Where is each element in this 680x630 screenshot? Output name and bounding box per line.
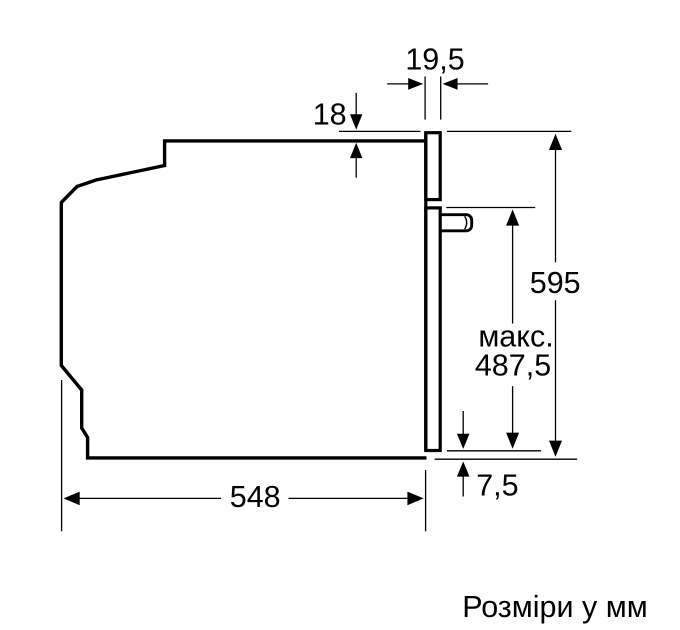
dimension 548 right extension line	[425, 470, 427, 531]
dimension 487,5 bottom extension line (door bottom level)	[447, 450, 541, 452]
svg-text:18: 18	[313, 98, 347, 132]
dimension 19,5 extension line right	[440, 77, 442, 120]
dimension 595 bottom extension line (body bottom level)	[435, 458, 578, 460]
dimension 7,5 up arrow	[462, 476, 464, 497]
oven door upper panel	[426, 133, 440, 200]
dimension 19,5 left arrow	[387, 83, 409, 85]
dimension 548 right arrow	[289, 497, 409, 499]
oven body outline	[61, 141, 426, 458]
dimension 7,5 down arrow	[462, 411, 464, 435]
svg-text:7,5: 7,5	[476, 469, 518, 503]
svg-text:595: 595	[530, 266, 581, 300]
handle highlight arc	[465, 216, 467, 229]
dimension 18 up arrow	[355, 158, 357, 178]
dimension 595 line with arrows	[549, 134, 562, 150]
dimension 18 reference line (door top level)	[339, 130, 421, 132]
door handle	[442, 215, 472, 231]
dimension 19,5 extension line left	[424, 77, 426, 120]
oven door lower panel	[426, 208, 440, 451]
dimension 487,5 top extension line (handle top level)	[446, 207, 535, 209]
svg-text:487,5: 487,5	[475, 349, 551, 383]
dimension 595 top extension line	[447, 130, 571, 132]
svg-text:548: 548	[230, 480, 281, 514]
svg-text:Розміри у мм: Розміри у мм	[462, 590, 648, 624]
svg-text:19,5: 19,5	[405, 43, 464, 77]
door front face continuous edge	[424, 133, 427, 451]
dimension 19,5 right arrow	[457, 83, 489, 85]
dimension 548 left extension line	[61, 380, 63, 531]
dimension 548 left arrow	[64, 492, 80, 506]
dimension 487,5 line with arrows	[506, 209, 519, 225]
dimension 18 down arrow	[355, 93, 357, 116]
